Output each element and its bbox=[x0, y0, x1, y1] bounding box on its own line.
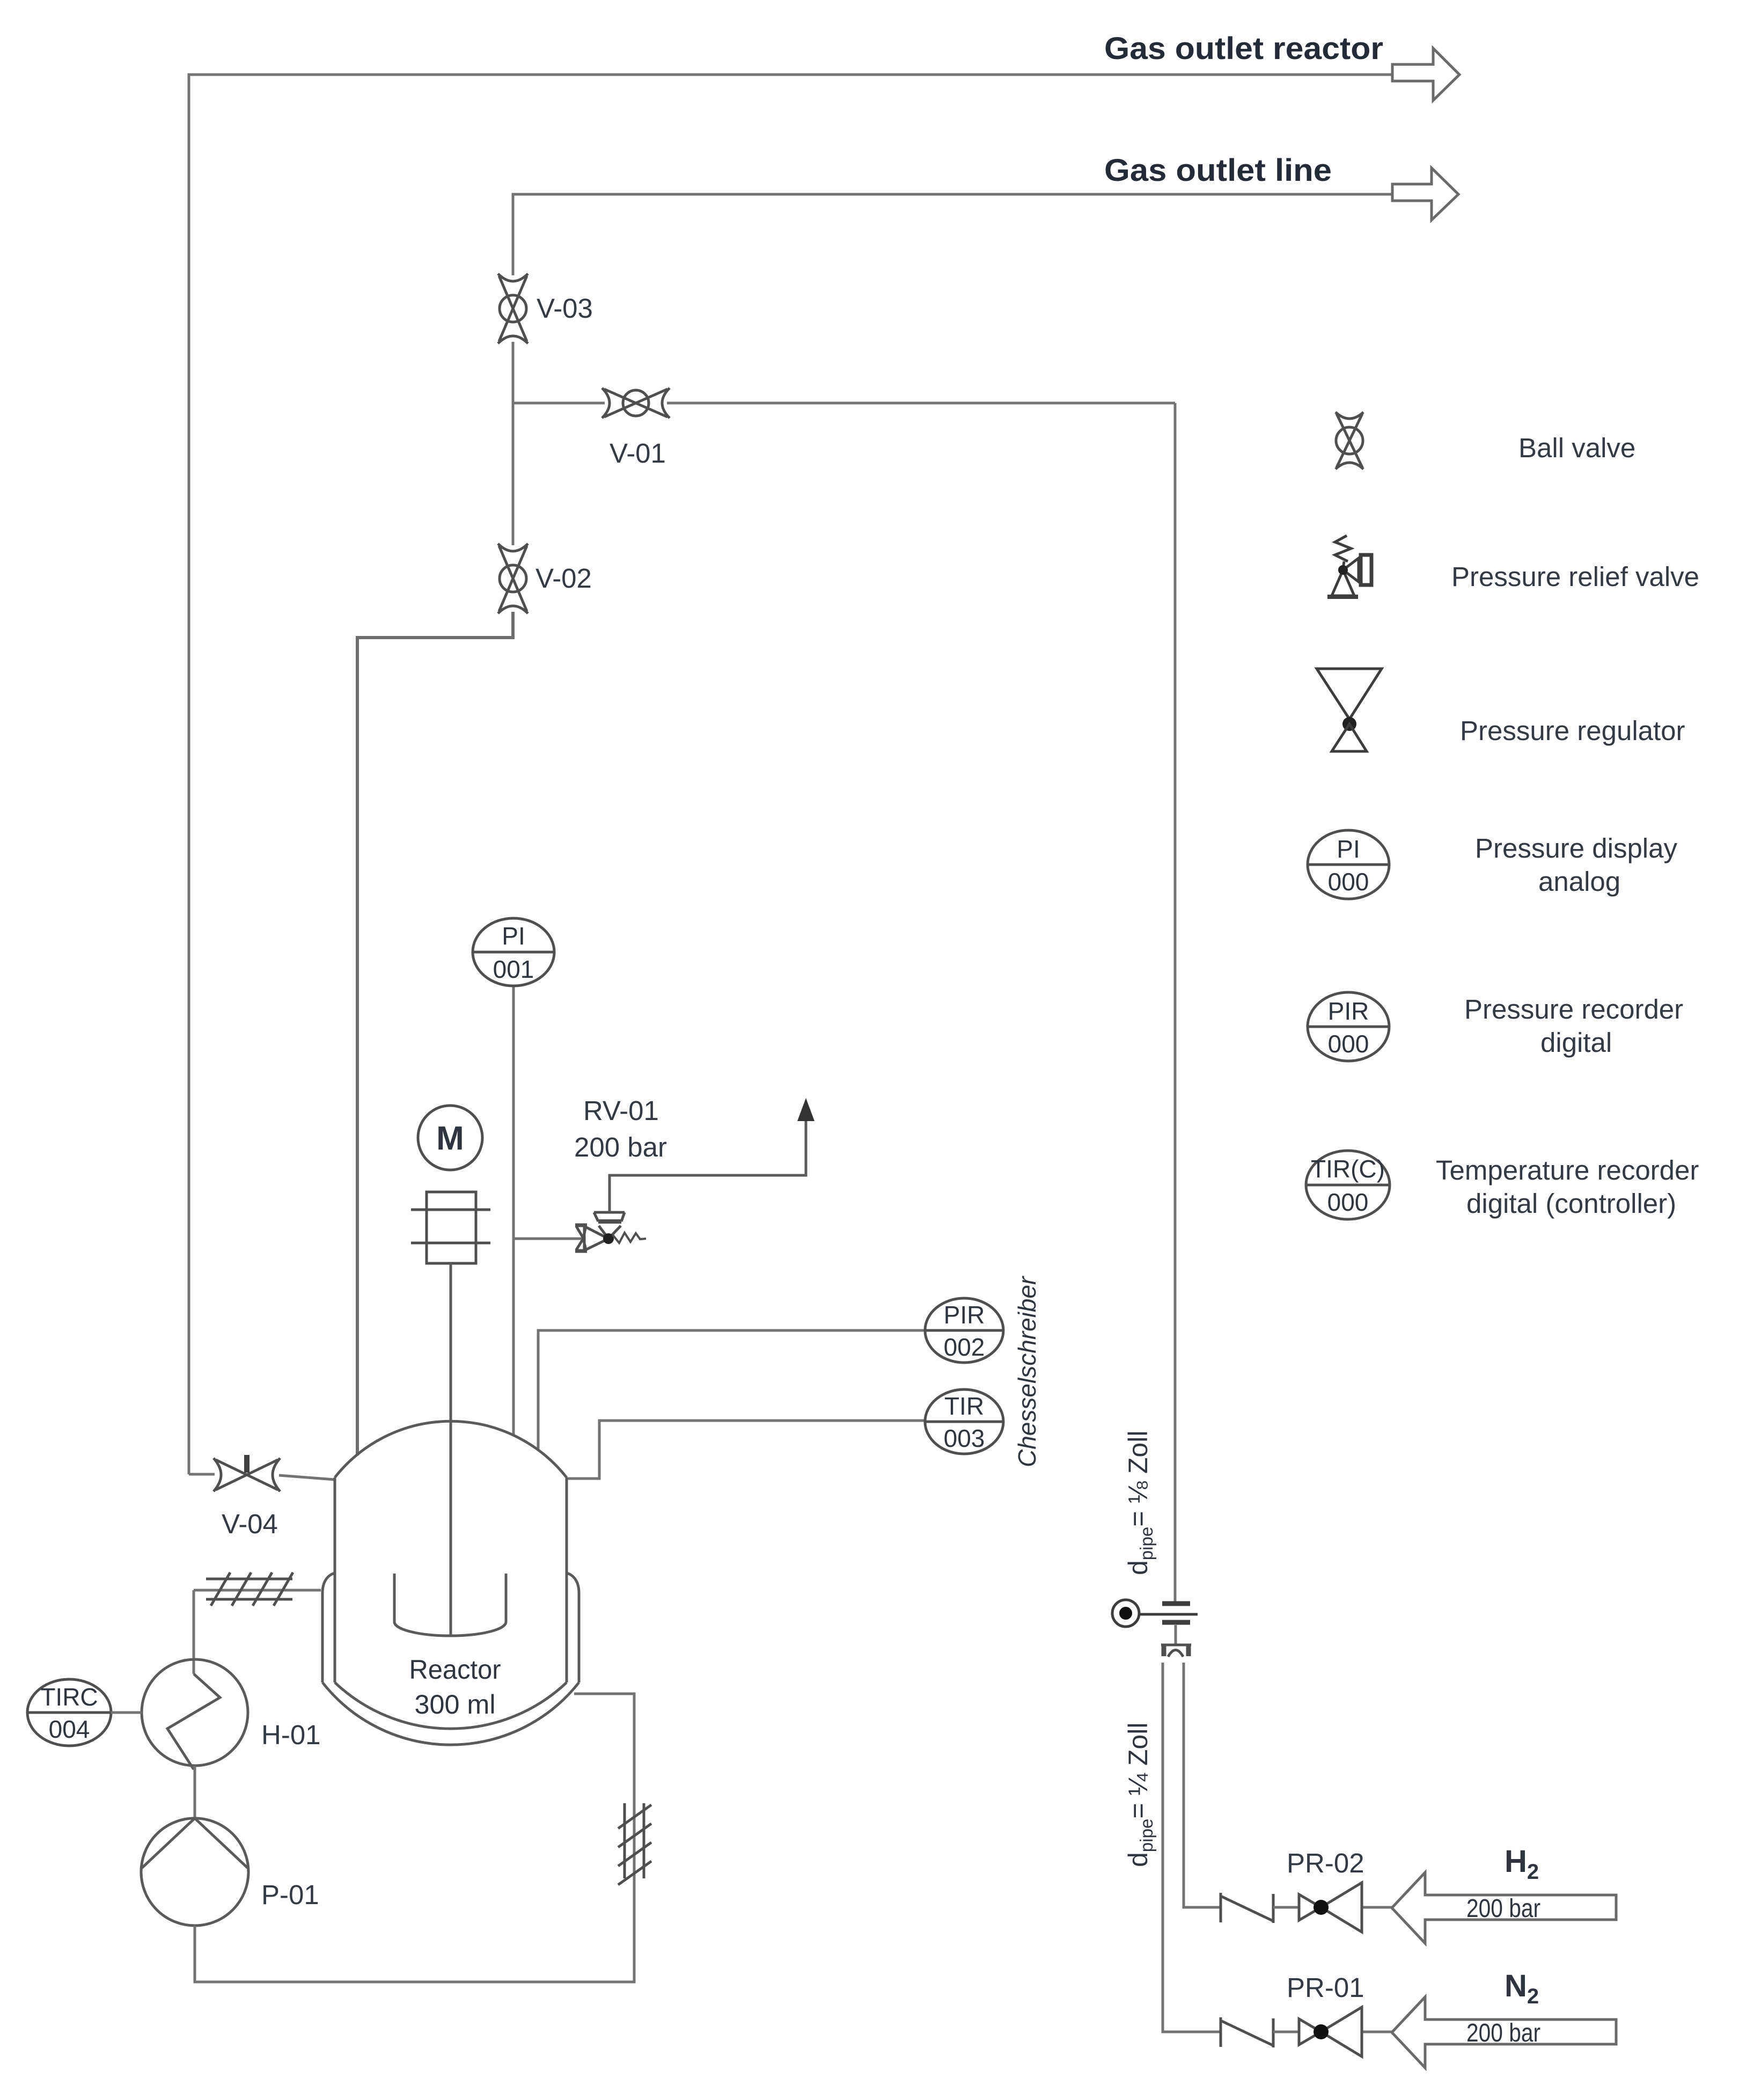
heated line hatching bbox=[206, 1572, 293, 1606]
wire: TIR-003 impulse line bbox=[566, 1421, 926, 1479]
check valve on N2 line bbox=[1221, 2017, 1274, 2047]
wire: gas inlet riser pipe bbox=[1174, 403, 1177, 1602]
svg-text:TIRC: TIRC bbox=[40, 1683, 98, 1711]
label: d_pipe = 1/4 Zoll (rotated) bbox=[1123, 1723, 1156, 1867]
svg-text:001: 001 bbox=[493, 955, 534, 983]
wire: V-03 to V-02 pipe bbox=[512, 342, 515, 545]
svg-text:Temperature recorder: Temperature recorder bbox=[1436, 1155, 1699, 1186]
arrow: vent to atmosphere bbox=[797, 1098, 815, 1121]
wire: V-02 down to reactor dome bbox=[357, 612, 513, 1455]
valve V-03 (ball valve) bbox=[498, 274, 528, 343]
return line hatching bbox=[618, 1803, 651, 1885]
svg-text:Pressure recorder: Pressure recorder bbox=[1464, 994, 1683, 1025]
arrow: gas outlet line outlet bbox=[1392, 168, 1458, 220]
svg-text:Reactor: Reactor bbox=[409, 1655, 501, 1685]
svg-text:PR-02: PR-02 bbox=[1287, 1848, 1364, 1878]
svg-text:200 bar: 200 bar bbox=[1466, 2019, 1540, 2047]
wire: H2 line middle segment bbox=[1273, 1906, 1392, 1909]
svg-text:PI: PI bbox=[1337, 835, 1360, 863]
svg-text:PIR: PIR bbox=[1328, 997, 1369, 1025]
coupling: quick-connect with indicator circle bbox=[1112, 1600, 1198, 1627]
arrow: N2 supply bbox=[1392, 1997, 1616, 2068]
relief valve RV-01 bbox=[575, 1212, 646, 1251]
svg-text:Ball valve: Ball valve bbox=[1518, 433, 1635, 463]
svg-text:TIR(C): TIR(C) bbox=[1311, 1155, 1385, 1183]
fitting: small bowtie below coupling bbox=[1161, 1645, 1191, 1657]
svg-text:PR-01: PR-01 bbox=[1287, 1972, 1364, 2003]
svg-text:digital: digital bbox=[1540, 1027, 1612, 1058]
svg-text:004: 004 bbox=[49, 1715, 90, 1743]
svg-text:Pressure relief valve: Pressure relief valve bbox=[1451, 561, 1699, 592]
label: Chesselschreiber (rotated, italic) bbox=[1013, 1276, 1041, 1467]
wire: H-01 to P-01 bbox=[194, 1766, 196, 1818]
wire: PI-001 impulse line bbox=[512, 985, 515, 1436]
svg-text:000: 000 bbox=[1328, 1030, 1369, 1058]
legend: PI 000 bubble bbox=[1308, 830, 1389, 899]
pressure regulator PR-02 bbox=[1299, 1883, 1362, 1932]
svg-text:H-01: H-01 bbox=[261, 1719, 321, 1750]
svg-text:analog: analog bbox=[1538, 866, 1620, 897]
instrument TIR 003 bbox=[925, 1389, 1003, 1454]
svg-text:V-01: V-01 bbox=[610, 438, 666, 469]
svg-text:P-01: P-01 bbox=[261, 1879, 319, 1910]
wire: PIR-002 impulse line bbox=[538, 1330, 926, 1451]
wire: RV-01 vent line bbox=[610, 1119, 806, 1212]
arrow: gas outlet reactor outlet bbox=[1392, 48, 1459, 100]
wire: twin risers to gas supplies bbox=[1163, 1663, 1221, 2032]
svg-text:digital (controller): digital (controller) bbox=[1466, 1188, 1676, 1219]
gearbox / stirrer drive bbox=[411, 1192, 490, 1263]
svg-text:PIR: PIR bbox=[944, 1301, 985, 1329]
wire: branch to V-01 pipe bbox=[513, 402, 1175, 405]
svg-text:V-02: V-02 bbox=[535, 563, 592, 594]
stirrer basket bbox=[394, 1574, 506, 1636]
legend: ball valve symbol bbox=[1336, 412, 1363, 469]
svg-text:Pressure regulator: Pressure regulator bbox=[1460, 715, 1685, 746]
wire: TIRC to H-01 bbox=[111, 1711, 142, 1714]
valve V-04 (shut-off) bbox=[214, 1455, 280, 1491]
pressure regulator PR-01 bbox=[1299, 2007, 1362, 2057]
wire: gas outlet line header pipe bbox=[513, 194, 1392, 275]
svg-text:Chesselschreiber: Chesselschreiber bbox=[1013, 1276, 1041, 1467]
svg-text:300 ml: 300 ml bbox=[415, 1689, 496, 1719]
wire: heated feed line H-01 to jacket bbox=[194, 1590, 321, 1674]
wire: stirrer shaft bbox=[450, 1263, 452, 1635]
heat exchanger H-01 bbox=[142, 1659, 248, 1769]
label: d_pipe = 1/8 Zoll (rotated) bbox=[1123, 1431, 1156, 1575]
reactor vessel bbox=[335, 1421, 567, 1729]
instrument TIRC 004 bbox=[27, 1679, 111, 1746]
arrow: H2 supply bbox=[1392, 1872, 1616, 1943]
svg-text:V-04: V-04 bbox=[222, 1509, 278, 1539]
svg-text:PI: PI bbox=[502, 922, 525, 950]
check valve on H2 line bbox=[1221, 1893, 1274, 1923]
wire: coupling lower stub bbox=[1175, 1625, 1177, 1644]
svg-text:003: 003 bbox=[944, 1424, 985, 1452]
instrument PIR 002 bbox=[925, 1298, 1003, 1363]
svg-text:TIR: TIR bbox=[944, 1392, 984, 1420]
legend: pressure relief valve symbol bbox=[1327, 536, 1371, 597]
wire: pump discharge loop bbox=[195, 1694, 634, 1982]
legend: pressure regulator symbol bbox=[1317, 669, 1382, 751]
valve V-01 (ball valve) bbox=[602, 388, 670, 418]
svg-text:200 bar: 200 bar bbox=[574, 1132, 667, 1162]
wire: RV-01 branch bbox=[513, 1238, 583, 1240]
svg-text:200 bar: 200 bar bbox=[1466, 1894, 1540, 1923]
svg-text:V-03: V-03 bbox=[537, 293, 593, 324]
wire: gas outlet reactor header pipe bbox=[189, 75, 1392, 1474]
legend: TIR(C) 000 bubble bbox=[1306, 1151, 1390, 1219]
svg-text:000: 000 bbox=[1328, 868, 1369, 896]
svg-text:M: M bbox=[436, 1120, 464, 1157]
legend: PIR 000 bubble bbox=[1308, 992, 1389, 1061]
svg-text:Gas outlet line: Gas outlet line bbox=[1104, 153, 1332, 188]
reactor heating jacket bbox=[322, 1573, 579, 1745]
valve V-02 (ball valve) bbox=[498, 544, 528, 613]
svg-text:RV-01: RV-01 bbox=[583, 1095, 659, 1126]
motor M bbox=[418, 1106, 482, 1170]
svg-text:Pressure display: Pressure display bbox=[1475, 833, 1677, 864]
pump P-01 bbox=[141, 1818, 248, 1926]
svg-text:000: 000 bbox=[1327, 1188, 1369, 1216]
svg-text:Gas outlet reactor: Gas outlet reactor bbox=[1104, 31, 1383, 66]
svg-text:002: 002 bbox=[944, 1333, 985, 1361]
wire: N2 line middle segment bbox=[1273, 2031, 1392, 2033]
wire: V-04 to reactor bbox=[189, 1474, 335, 1480]
instrument PI 001 bbox=[473, 918, 554, 986]
